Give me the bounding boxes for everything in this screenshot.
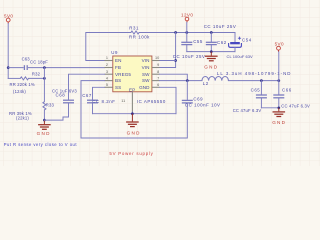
- pin 2 FB: [105, 63, 122, 70]
- svg-text:9: 9: [157, 63, 159, 67]
- svg-text:LL 3.3uH 498-10799-1-ND: LL 3.3uH 498-10799-1-ND: [217, 71, 292, 76]
- svg-text:C68: C68: [56, 92, 66, 97]
- svg-text:5V0: 5V0: [275, 41, 284, 46]
- capacitor C63: [8, 56, 48, 70]
- svg-text:GND: GND: [139, 85, 150, 90]
- wire output 5V: [228, 79, 280, 82]
- svg-text:CC 47uF 6.3V: CC 47uF 6.3V: [281, 104, 310, 109]
- svg-text:5V Power supply: 5V Power supply: [109, 151, 153, 156]
- svg-text:VIN: VIN: [142, 58, 150, 63]
- svg-text:L2: L2: [203, 81, 209, 86]
- svg-text:SW: SW: [142, 78, 150, 83]
- svg-text:RR 100k: RR 100k: [129, 34, 150, 39]
- svg-text:VREG5: VREG5: [115, 72, 131, 77]
- capacitor C69 (bootstrap): [81, 81, 221, 138]
- svg-text:R32: R32: [32, 72, 41, 77]
- svg-text:GND: GND: [127, 131, 141, 136]
- svg-text:C67: C67: [82, 93, 92, 98]
- svg-text:(124k): (124k): [13, 89, 26, 94]
- wire VIN riser: [160, 33, 177, 68]
- pin 6 GND: [139, 83, 159, 90]
- wire EN to R31: [86, 33, 131, 61]
- pin 5 SS: [105, 83, 122, 90]
- wire 5V0 column: [7, 24, 10, 79]
- svg-text:GND: GND: [37, 131, 51, 136]
- inductor L2: [202, 71, 291, 86]
- note: R sense placement: [4, 142, 78, 147]
- pin 4 BS: [105, 76, 122, 83]
- svg-text:Put R sense very close to V ou: Put R sense very close to V out: [4, 142, 78, 147]
- power 12V0: [181, 13, 193, 33]
- IC U9 AP65550 body: [111, 50, 152, 92]
- svg-text:CC 100nF 10V: CC 100nF 10V: [185, 103, 221, 108]
- pin 7 SW: [142, 76, 160, 83]
- IC value label: [137, 99, 166, 104]
- power 5V0 output: [275, 41, 284, 80]
- capacitor C66: [273, 81, 310, 109]
- svg-text:1: 1: [106, 56, 108, 60]
- svg-text:VIN: VIN: [142, 65, 150, 70]
- svg-text:3: 3: [106, 70, 108, 74]
- svg-text:4: 4: [106, 76, 108, 80]
- ground (output caps): [272, 108, 286, 125]
- pin 1 EN: [105, 56, 122, 63]
- wire analog ground rail: [93, 112, 177, 115]
- resistor R33: [9, 68, 55, 121]
- svg-text:GND: GND: [272, 120, 286, 125]
- wire 12V bus: [139, 31, 235, 34]
- svg-text:11: 11: [121, 99, 125, 103]
- node FB / wire to pin 2: [43, 66, 104, 80]
- svg-text:R33: R33: [46, 103, 55, 108]
- ground (feedback divider): [37, 119, 51, 136]
- wire pin10 VIN: [160, 60, 176, 62]
- svg-text:CC 10uF 25V: CC 10uF 25V: [173, 54, 206, 59]
- capacitor C68: [44, 74, 104, 120]
- svg-text:SW: SW: [142, 72, 150, 77]
- wire input cap bottom rail: [187, 50, 235, 53]
- svg-text:7: 7: [157, 76, 159, 80]
- svg-text:BS: BS: [115, 78, 121, 83]
- svg-text:GND: GND: [204, 64, 218, 69]
- svg-text:CL 100uF 63V: CL 100uF 63V: [227, 54, 254, 59]
- ground (input caps): [204, 52, 218, 70]
- capacitor C62: [204, 24, 237, 51]
- pin 9 VIN: [142, 63, 160, 70]
- svg-text:C69: C69: [193, 97, 203, 102]
- resistor R31: [129, 25, 150, 39]
- svg-text:C54: C54: [242, 38, 252, 43]
- svg-text:RR 220k 1%: RR 220k 1%: [10, 82, 35, 87]
- svg-text:R31: R31: [129, 25, 139, 30]
- wire pin 8 SW jog: [160, 74, 188, 80]
- svg-text:EN: EN: [115, 58, 122, 63]
- svg-text:IC AP65550: IC AP65550: [137, 99, 166, 104]
- wire output cap bottom rail: [261, 106, 280, 109]
- resistor R32: [8, 72, 44, 94]
- svg-text:CC 18pF: CC 18pF: [30, 59, 48, 64]
- pin 10 VIN: [142, 56, 160, 63]
- svg-text:10: 10: [155, 56, 159, 60]
- pin 3 VREG5: [105, 70, 132, 77]
- svg-text:C66: C66: [282, 87, 292, 92]
- note: 5V Power supply: [109, 151, 153, 156]
- pin 8 SW: [142, 70, 160, 77]
- svg-text:U9: U9: [111, 50, 118, 55]
- power 5V0 (feedback sense): [4, 13, 13, 23]
- svg-text:C63: C63: [22, 56, 31, 61]
- svg-text:SS: SS: [115, 85, 121, 90]
- svg-text:(22k1): (22k1): [16, 115, 29, 120]
- svg-text:CC 10uF 25V: CC 10uF 25V: [204, 24, 237, 29]
- svg-text:C65: C65: [251, 87, 261, 92]
- capacitor C67: [82, 87, 115, 113]
- svg-text:CC 47uF 6.3V: CC 47uF 6.3V: [233, 108, 262, 113]
- svg-text:C62: C62: [217, 40, 227, 45]
- pin 11 EP: [121, 88, 135, 114]
- wire pin 6 GND: [160, 87, 177, 113]
- capacitor C65: [233, 81, 267, 113]
- svg-text:CC 8.2nF: CC 8.2nF: [92, 99, 115, 104]
- svg-text:6: 6: [157, 83, 159, 87]
- svg-text:EP: EP: [129, 88, 135, 93]
- svg-text:5: 5: [106, 83, 108, 87]
- svg-text:8: 8: [157, 70, 159, 74]
- capacitor C55: [173, 33, 206, 60]
- ground (IC EP): [126, 114, 141, 136]
- svg-text:C55: C55: [193, 39, 203, 44]
- wire SW line: [160, 79, 203, 82]
- svg-text:FB: FB: [115, 65, 121, 70]
- svg-text:5V0: 5V0: [4, 13, 13, 18]
- svg-text:2: 2: [106, 63, 108, 67]
- wire BS pin 4: [81, 81, 105, 138]
- capacitor C54 (polarized): [227, 33, 254, 59]
